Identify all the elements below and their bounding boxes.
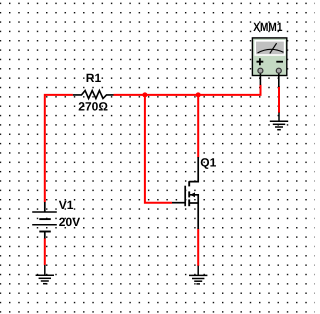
svg-text:270Ω: 270Ω <box>78 99 108 113</box>
wire: battery V1 minus terminal down to ground <box>44 238 46 265</box>
ground (below Q1 source) <box>189 266 207 284</box>
wire: junction A down to gate of Q1 <box>145 95 172 203</box>
wire: battery V1 plus terminal up to resistor R1 left lead <box>45 95 73 202</box>
wire: XMM1 minus terminal down to ground <box>278 86 280 113</box>
junction B <box>196 92 201 97</box>
wire: junction B down to drain of Q1 <box>197 95 199 158</box>
multimeter XMM1 <box>252 38 286 87</box>
wire: resistor R1 right lead to XMM1 plus terminal (main net) <box>114 85 261 95</box>
ground (below XMM1 minus) <box>270 113 288 130</box>
ground (below battery V1) <box>36 265 54 284</box>
wire: source of Q1 down to ground <box>197 229 199 266</box>
svg-text:20V: 20V <box>59 215 80 229</box>
battery V1 <box>32 202 57 239</box>
svg-text:V1: V1 <box>59 198 74 212</box>
transistor Q1 (NMOS) <box>172 157 198 229</box>
svg-text:R1: R1 <box>86 71 102 85</box>
junction A <box>142 92 147 97</box>
svg-text:Q1: Q1 <box>200 155 216 169</box>
svg-text:XMM1: XMM1 <box>253 20 282 34</box>
resistor R1 <box>73 91 114 99</box>
